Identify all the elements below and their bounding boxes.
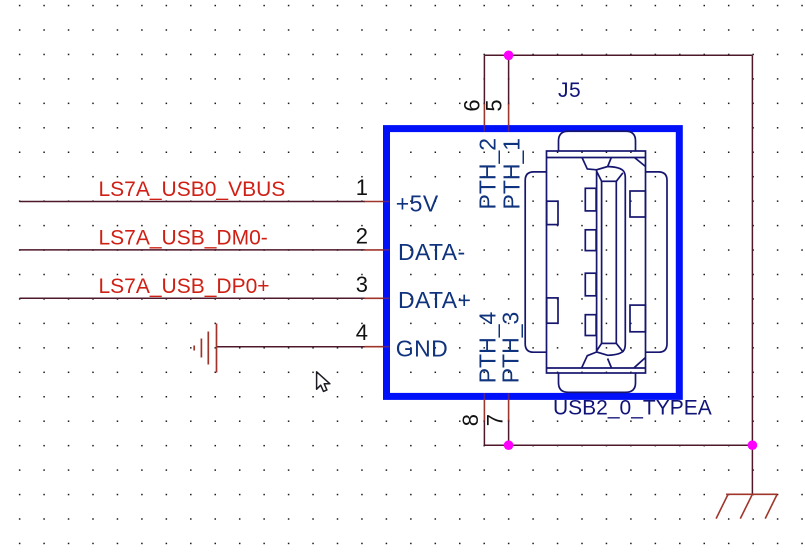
contact pad right shell lower xyxy=(630,305,645,332)
svg-text:8: 8 xyxy=(458,414,483,426)
shell bottom bar xyxy=(547,367,646,369)
wire ground to pin 4 xyxy=(217,346,366,348)
svg-text:LS7A_USB_DM0-: LS7A_USB_DM0- xyxy=(99,226,268,249)
top right chamfer xyxy=(635,158,646,167)
contact pad right shell upper xyxy=(630,191,645,217)
chassis ground symbol (bottom right) xyxy=(716,494,777,518)
right flange xyxy=(646,172,668,352)
wire bottom vertical from pin 8 xyxy=(483,420,485,446)
svg-text:2: 2 xyxy=(356,223,368,248)
blade corner BR xyxy=(616,343,623,352)
svg-text:4: 4 xyxy=(356,320,368,345)
top notch right slant xyxy=(608,158,612,167)
contact pad tongue 2 xyxy=(585,230,596,251)
wire stub to chassis ground xyxy=(751,445,753,494)
contact pad left shell upper xyxy=(547,201,558,224)
wire net LS7A_USB_DP0+ to pin 3 xyxy=(20,297,366,299)
contact pad tongue 3 xyxy=(585,273,596,296)
junction bottom left xyxy=(504,440,514,450)
top mounting tab xyxy=(559,131,636,151)
tongue blade face xyxy=(602,181,617,343)
junction bottom right xyxy=(748,440,758,450)
wire top vertical from pin 6 xyxy=(483,55,485,105)
svg-text:LS7A_USB0_VBUS: LS7A_USB0_VBUS xyxy=(99,178,286,201)
left flange xyxy=(525,172,546,352)
svg-text:1: 1 xyxy=(356,175,368,200)
wire top horizontal xyxy=(484,54,752,56)
svg-text:J5: J5 xyxy=(558,79,581,102)
shell main rectangle xyxy=(547,151,646,373)
USB receptacle graphic xyxy=(525,131,667,392)
bottom right chamfer xyxy=(634,358,646,369)
junction top xyxy=(504,51,514,61)
contact pad tongue 4 xyxy=(585,315,596,336)
svg-text:USB2_0_TYPEA: USB2_0_TYPEA xyxy=(553,397,712,420)
pin 5 stub xyxy=(508,104,510,132)
wire bottom horizontal xyxy=(484,444,752,446)
svg-text:PTH_3: PTH_3 xyxy=(498,312,524,384)
svg-text:7: 7 xyxy=(482,414,507,426)
pin 8 stub xyxy=(483,393,485,420)
pin 2 stub xyxy=(365,249,390,251)
svg-text:DATA-: DATA- xyxy=(398,239,466,265)
svg-text:3: 3 xyxy=(356,272,368,297)
bottom notch xyxy=(582,352,597,368)
svg-text:GND: GND xyxy=(396,336,448,362)
pin 4 stub xyxy=(365,346,390,348)
contact pad tongue 1 xyxy=(585,188,596,211)
contact pad left shell lower xyxy=(547,298,558,323)
blade corner TR xyxy=(616,173,623,181)
blade corner BL xyxy=(597,343,602,350)
pin 1 stub xyxy=(365,201,390,203)
wire right vertical xyxy=(751,55,753,445)
svg-text:LS7A_USB_DP0+: LS7A_USB_DP0+ xyxy=(99,275,270,298)
svg-text:+5V: +5V xyxy=(396,190,439,216)
svg-text:PTH_2: PTH_2 xyxy=(475,138,501,210)
wire top vertical from pin 5 xyxy=(508,55,510,105)
mouse cursor xyxy=(317,372,330,392)
blade corner TL xyxy=(597,172,602,182)
pin 6 stub xyxy=(483,104,485,132)
tongue outline xyxy=(597,167,626,356)
svg-text:DATA+: DATA+ xyxy=(398,287,471,313)
wire net LS7A_USB0_VBUS to pin 1 xyxy=(20,201,366,203)
pin 3 stub xyxy=(365,297,390,299)
wire net LS7A_USB_DM0- to pin 2 xyxy=(20,249,366,251)
bottom notch right slant xyxy=(608,359,612,369)
top notch xyxy=(582,158,597,170)
connector J5 body outline (blue box) xyxy=(387,129,680,397)
bottom mounting tab xyxy=(559,373,636,392)
shell top bar xyxy=(547,157,646,159)
wire bottom vertical from pin 7 xyxy=(508,420,510,446)
pin 7 stub xyxy=(508,393,510,420)
svg-text:PTH_1: PTH_1 xyxy=(499,138,525,210)
svg-text:5: 5 xyxy=(482,99,507,111)
ground symbol GND (left, bar style) xyxy=(194,324,216,373)
